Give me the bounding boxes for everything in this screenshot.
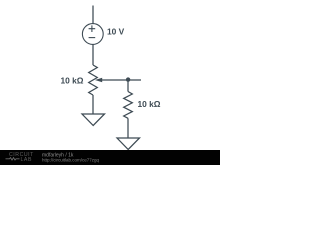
svg-text:LAB: LAB <box>21 157 32 163</box>
svg-text:10 V: 10 V <box>107 26 125 36</box>
wiper arrowhead <box>95 78 102 82</box>
wire pot R1 bottom to ground <box>92 95 94 114</box>
svg-text:http://circuitlab.com/ce77zgq: http://circuitlab.com/ce77zgq <box>42 158 100 163</box>
CircuitLab logo zigzag <box>6 158 20 160</box>
svg-text:10 kΩ: 10 kΩ <box>138 99 161 109</box>
V1 minus sign <box>89 37 96 39</box>
voltage source V1 circle <box>82 24 103 45</box>
resistor R2 zigzag body <box>124 92 133 119</box>
wire stub right of node <box>128 79 141 81</box>
node junction dot <box>126 77 130 81</box>
watermark bar <box>0 150 220 165</box>
wire top feed to V1 <box>92 6 94 24</box>
wire V1 bottom to pot R1 <box>92 45 94 66</box>
wiper wire from arrow to node <box>101 79 129 81</box>
V1 plus sign <box>89 25 96 32</box>
ground GND2 (right) <box>117 138 140 150</box>
potentiometer R1 zigzag body <box>89 65 98 95</box>
wire node down to R2 <box>127 80 129 92</box>
ground GND1 (left) <box>82 114 105 126</box>
wire R2 bottom to ground <box>127 118 129 138</box>
svg-text:10 kΩ: 10 kΩ <box>61 75 84 85</box>
